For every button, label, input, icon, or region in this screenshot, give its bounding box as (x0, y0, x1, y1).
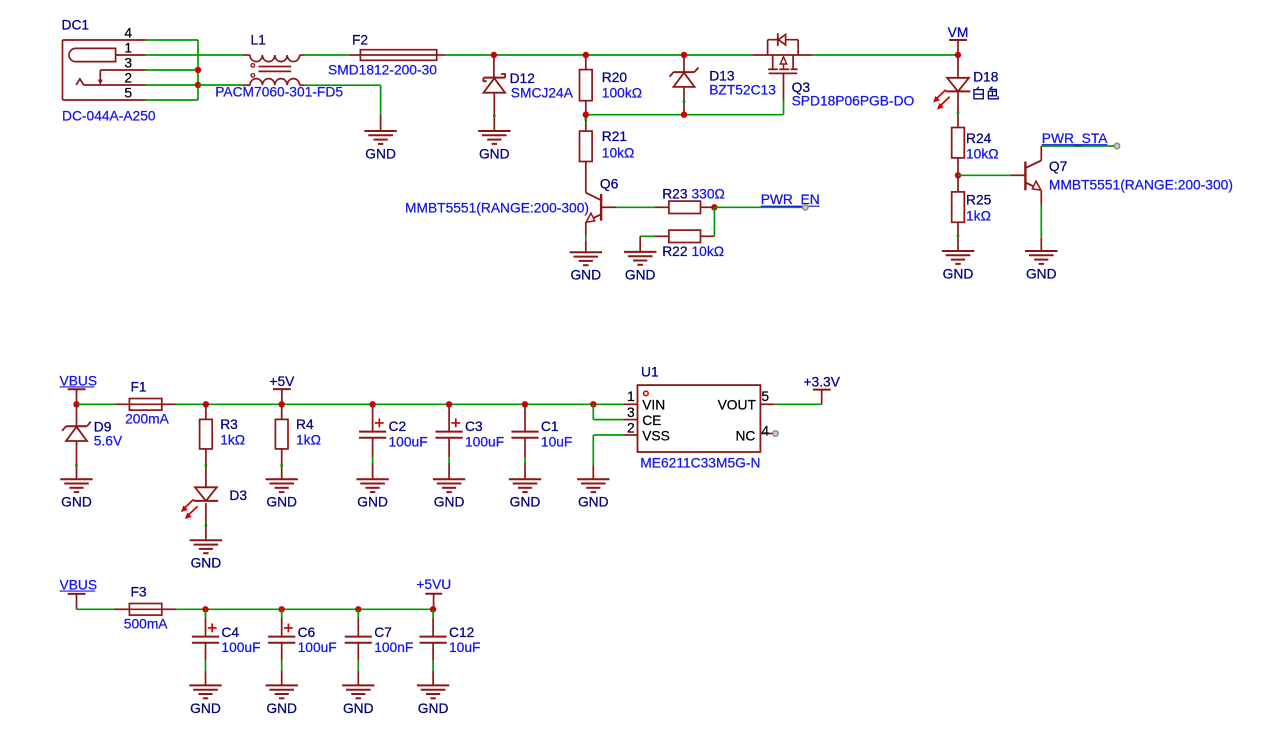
svg-text:PWR_EN: PWR_EN (761, 192, 820, 207)
svg-text:GND: GND (578, 495, 609, 510)
wire: Q3 to VM (top rail) (813, 54, 959, 56)
svg-text:GND: GND (434, 495, 465, 510)
wire: VSS branch horizontal (593, 434, 623, 436)
transistor Q7 NPN (1011, 146, 1041, 205)
svg-text:C3: C3 (465, 419, 483, 434)
svg-text:VBUS: VBUS (60, 373, 98, 388)
svg-text:1kΩ: 1kΩ (220, 432, 245, 447)
svg-text:100uF: 100uF (465, 434, 504, 449)
fuse F2 (349, 50, 446, 61)
ground for C3 (433, 479, 465, 509)
ground for Q6 (570, 241, 602, 283)
wire: R23 to PWR_EN pin (714, 206, 805, 208)
ground for C6 (266, 685, 298, 715)
ground for L1 return (364, 115, 396, 162)
wire: Q7 collector to PWR_STA (1041, 145, 1117, 147)
svg-text:D18: D18 (973, 70, 999, 85)
capacitor C12 (420, 609, 447, 685)
svg-text:GND: GND (266, 495, 297, 510)
capacitor C3 (436, 404, 463, 479)
resistor R4 (275, 404, 288, 479)
wire: DC1 pin1 to L1 (top rail) (146, 54, 244, 56)
svg-text:VIN: VIN (642, 398, 665, 413)
ground for D9 (60, 479, 92, 509)
svg-text:C12: C12 (449, 625, 474, 640)
svg-text:GND: GND (365, 146, 396, 161)
svg-text:330Ω: 330Ω (692, 187, 725, 202)
ground for C2 (356, 479, 388, 509)
wire: VM to D18 (957, 55, 959, 78)
junction: bottom rail at C6 (279, 606, 285, 612)
svg-text:10uF: 10uF (541, 434, 572, 449)
svg-text:R25: R25 (966, 193, 992, 208)
resistor R20 (580, 55, 593, 115)
resistor R3 (200, 404, 213, 487)
svg-text:C6: C6 (298, 625, 316, 640)
wire: DC1 pin2 to bus (146, 84, 199, 86)
zener diode D13 (670, 68, 699, 115)
svg-text:Q6: Q6 (600, 177, 619, 192)
junction: rail at C3 (446, 401, 452, 407)
junction: R24/R25/Q7 base node (955, 172, 961, 178)
zener diode D9 (62, 404, 91, 479)
wire: F3 to +5VU (bottom rail) (176, 608, 433, 610)
svg-text:D3: D3 (229, 488, 247, 503)
svg-text:U1: U1 (641, 364, 659, 379)
transistor Q3 P-MOSFET with body diode (752, 33, 812, 100)
svg-text:MMBT5551(RANGE:200-300): MMBT5551(RANGE:200-300) (1049, 177, 1233, 192)
svg-text:100uF: 100uF (298, 640, 337, 655)
wire: L1 bottom to GND drop (305, 84, 381, 86)
svg-text:GND: GND (943, 266, 974, 281)
svg-text:VSS: VSS (642, 429, 670, 444)
svg-text:CE: CE (642, 413, 661, 428)
no-connect pin U1 NC (773, 431, 778, 436)
svg-text:10kΩ: 10kΩ (966, 147, 999, 162)
svg-text:R3: R3 (220, 417, 238, 432)
ground for C7 (342, 685, 374, 715)
LED D3 (181, 487, 218, 540)
wire: Q7 emitter to GND (1040, 205, 1042, 238)
svg-text:100uF: 100uF (221, 640, 260, 655)
junction: VM node (955, 52, 961, 58)
svg-text:D12: D12 (510, 71, 535, 86)
svg-text:GND: GND (343, 701, 374, 716)
resistor R21 (580, 115, 593, 193)
svg-text:C7: C7 (374, 625, 392, 640)
svg-text:4: 4 (124, 26, 132, 41)
svg-text:F1: F1 (131, 379, 147, 394)
svg-text:R22: R22 (662, 244, 687, 259)
net label PWR_EN (761, 192, 820, 207)
svg-text:100uF: 100uF (389, 434, 428, 449)
junction: bottom rail at C7 (355, 606, 361, 612)
svg-text:+5VU: +5VU (416, 577, 451, 592)
wire: Q6 base to R23 (617, 206, 655, 208)
wire: DC1 pin4 to bus (146, 39, 199, 41)
net label PWR_STA (1042, 131, 1108, 146)
wire: CE branch horizontal (593, 419, 623, 421)
capacitor C7 (345, 609, 372, 685)
svg-text:4: 4 (761, 424, 769, 439)
junction: rail at C1 (522, 401, 528, 407)
wire: Q3 gate to rail (783, 100, 785, 115)
svg-text:DC-044A-A250: DC-044A-A250 (62, 109, 156, 124)
ground for U1 VSS (577, 466, 609, 510)
svg-text:VBUS: VBUS (60, 578, 98, 593)
svg-text:VM: VM (948, 25, 969, 40)
wire: bus to L1 bottom winding (198, 84, 243, 86)
wire: DC1 right vertical bus (197, 40, 199, 100)
junction: PWR_EN node (711, 204, 717, 210)
junction at D13 bottom (681, 112, 687, 118)
svg-text:D13: D13 (709, 69, 735, 84)
junction at DC1 pin2 bus (195, 82, 201, 88)
no-connect pin PWR_STA (1114, 143, 1119, 148)
wire: DC1 pin5 to bus (146, 99, 199, 101)
svg-text:R4: R4 (296, 417, 314, 432)
wire: L1 GND drop vertical (380, 85, 382, 114)
power flag +5VU (416, 577, 451, 609)
svg-text:R24: R24 (966, 131, 992, 146)
net label VBUS (middle row) (60, 373, 98, 404)
net label VBUS (bottom row) (60, 578, 98, 610)
svg-text:VOUT: VOUT (718, 398, 757, 413)
wire: R22 to GND drop (640, 235, 654, 237)
svg-text:Q7: Q7 (1049, 159, 1067, 174)
svg-text:SPD18P06PGB-DO: SPD18P06PGB-DO (792, 94, 915, 109)
svg-text:GND: GND (479, 146, 510, 161)
svg-text:10kΩ: 10kΩ (692, 244, 725, 259)
wire: PWR_EN node down to R22 (713, 207, 715, 236)
svg-text:100kΩ: 100kΩ (602, 86, 642, 101)
svg-text:GND: GND (418, 701, 449, 716)
svg-text:+3.3V: +3.3V (803, 374, 840, 389)
svg-text:R20: R20 (602, 70, 628, 85)
svg-text:PACM7060-301-FD5: PACM7060-301-FD5 (215, 85, 343, 100)
svg-text:3: 3 (124, 56, 132, 71)
svg-text:1: 1 (124, 41, 132, 56)
LED D18 (933, 78, 970, 128)
ground for R22 (624, 236, 656, 282)
capacitor C4 (192, 609, 219, 685)
junction: top rail at D12 (491, 52, 497, 58)
wire: VOUT to +3.3V (775, 403, 822, 405)
power flag +5V (269, 374, 295, 404)
fuse F3 (115, 604, 177, 616)
junction: rail at R4/+5V (279, 401, 285, 407)
connector DC1 (DC-044A-A250 barrel jack) (63, 40, 146, 100)
svg-text:F2: F2 (352, 33, 368, 48)
svg-text:GND: GND (357, 495, 388, 510)
svg-text:ME6211C33M5G-N: ME6211C33M5G-N (640, 456, 760, 471)
ground for D3 (190, 540, 222, 570)
svg-text:5: 5 (761, 389, 769, 404)
ground for D12 (478, 131, 510, 161)
svg-text:C1: C1 (541, 419, 559, 434)
wire: L1 to F2 (top rail) (305, 54, 349, 56)
ground for R25 (942, 251, 974, 281)
svg-text:L1: L1 (251, 33, 266, 48)
svg-text:R21: R21 (602, 129, 627, 144)
svg-text:1: 1 (627, 389, 635, 404)
svg-text:10uF: 10uF (449, 640, 480, 655)
junction: VBUS node (73, 401, 79, 407)
junction: top rail at D13 (681, 52, 687, 58)
svg-text:GND: GND (625, 267, 656, 282)
svg-text:500mA: 500mA (124, 617, 169, 632)
no-connect pin PWR_EN (803, 205, 808, 210)
svg-text:SMCJ24A: SMCJ24A (511, 86, 574, 101)
svg-text:2: 2 (124, 71, 132, 86)
resistor R22 (655, 230, 715, 242)
junction at DC1 pin3 bus (195, 67, 201, 73)
svg-text:1kΩ: 1kΩ (966, 209, 991, 224)
svg-text:SMD1812-200-30: SMD1812-200-30 (328, 63, 437, 78)
svg-text:200mA: 200mA (125, 411, 170, 426)
svg-text:2: 2 (627, 421, 635, 436)
wire: F1 to U1 VIN (middle rail) (176, 403, 624, 405)
svg-text:D9: D9 (94, 419, 112, 434)
wire: F2 to Q3 (top rail) (445, 54, 752, 56)
svg-text:10kΩ: 10kΩ (602, 146, 635, 161)
svg-text:BZT52C13: BZT52C13 (709, 83, 776, 98)
wire: VSS branch vertical to GND (592, 435, 594, 466)
svg-text:5: 5 (124, 86, 132, 101)
power flag +3.3V (803, 374, 840, 404)
svg-text:1kΩ: 1kΩ (296, 432, 321, 447)
D18 value label (white color, CJK drawn as strokes) (974, 87, 998, 99)
capacitor C6 (268, 609, 295, 685)
svg-text:MMBT5551(RANGE:200-300): MMBT5551(RANGE:200-300) (405, 200, 589, 215)
wire: lead to D12 (493, 55, 495, 78)
svg-text:GND: GND (1026, 266, 1057, 281)
junction: bottom rail at C12 (430, 606, 436, 612)
fuse F1 (116, 399, 176, 411)
svg-text:C2: C2 (389, 419, 407, 434)
wire: R20/D13/Q3-gate rail (586, 114, 784, 116)
svg-text:5.6V: 5.6V (94, 434, 123, 449)
wire: Q6 emitter to GND (585, 236, 587, 241)
svg-text:100nF: 100nF (374, 640, 413, 655)
transistor Q6 NPN (586, 193, 617, 236)
wire: VBUS to F1 (77, 403, 116, 405)
ground for C1 (509, 479, 541, 509)
junction: rail at R3 (203, 401, 209, 407)
capacitor C1 (511, 404, 538, 479)
svg-text:GND: GND (570, 268, 601, 283)
junction: top rail at R20 (583, 52, 589, 58)
svg-text:R23: R23 (662, 187, 688, 202)
ground for C4 (189, 685, 221, 715)
ground for C12 (417, 685, 449, 715)
wire: DC1 pin3 to bus (146, 69, 199, 71)
junction: bottom rail at C4 (202, 606, 208, 612)
svg-text:F3: F3 (131, 585, 147, 600)
svg-text:DC1: DC1 (62, 18, 90, 33)
svg-text:3: 3 (627, 405, 635, 420)
svg-text:PWR_STA: PWR_STA (1042, 131, 1108, 146)
svg-text:GND: GND (191, 556, 222, 571)
inductor L1 common-mode choke (243, 55, 305, 85)
resistor R25 (952, 175, 965, 251)
svg-text:+5V: +5V (269, 374, 295, 389)
wire: VBUS to F3 (77, 608, 115, 610)
wire: CE branch vertical (592, 404, 594, 419)
junction: rail at C2 (369, 401, 375, 407)
wire: R24/R25 node to Q7 base (958, 174, 1011, 176)
ground for R4 (266, 479, 298, 509)
TVS diode D12 (484, 74, 506, 131)
svg-text:GND: GND (510, 495, 541, 510)
resistor R23 (655, 201, 715, 213)
svg-text:NC: NC (735, 429, 755, 444)
wire: lead to D13 (683, 55, 685, 72)
junction: rail at U1 VIN/CE (590, 401, 596, 407)
junction at R20 bottom (583, 112, 589, 118)
resistor R24 (952, 128, 965, 176)
capacitor C2 (359, 404, 386, 479)
svg-text:GND: GND (266, 701, 297, 716)
net flag VM (948, 25, 969, 55)
svg-text:GND: GND (61, 495, 92, 510)
svg-text:GND: GND (190, 701, 221, 716)
svg-text:C4: C4 (221, 625, 239, 640)
ground for Q7 (1025, 238, 1057, 282)
op-amp/regulator U1 ME6211C33M5G-N (624, 385, 775, 452)
